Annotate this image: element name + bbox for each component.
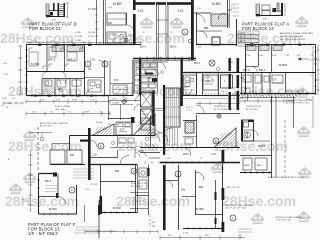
svg-text:M.BR.: M.BR. [212, 2, 222, 6]
svg-text:302: 302 [205, 235, 209, 237]
svg-text:BATH: BATH [244, 87, 251, 90]
svg-text:3.05: 3.05 [259, 55, 263, 57]
svg-text:3.05 M 2.1: 3.05 M 2.1 [240, 41, 250, 43]
svg-text:2.40: 2.40 [246, 55, 250, 57]
svg-text:E: E [100, 144, 102, 148]
svg-text:3.05: 3.05 [3, 63, 7, 65]
svg-text:ST.: ST. [273, 79, 277, 82]
svg-text:3.0: 3.0 [112, 41, 115, 43]
svg-text:BR.1: BR.1 [257, 165, 263, 167]
svg-text:1.9M: 1.9M [306, 99, 311, 101]
svg-text:37.0M: 37.0M [88, 8, 96, 11]
svg-text:302: 302 [168, 235, 172, 237]
svg-text:M.BR.: M.BR. [113, 206, 122, 210]
svg-text:2.1: 2.1 [143, 32, 146, 34]
svg-text:3.05 M 2.1: 3.05 M 2.1 [240, 37, 250, 39]
svg-text:3.05: 3.05 [166, 158, 170, 160]
svg-text:ST.: ST. [206, 80, 210, 83]
svg-text:5.0M: 5.0M [183, 233, 188, 235]
svg-text:BATH: BATH [244, 164, 250, 167]
svg-text:AT 2/F LEVEL ONLY: AT 2/F LEVEL ONLY [214, 108, 235, 111]
svg-text:BR.1: BR.1 [259, 68, 266, 72]
svg-text:2.7: 2.7 [124, 41, 127, 43]
svg-text:KIT.: KIT. [114, 79, 119, 82]
svg-text:15: 15 [68, 111, 71, 113]
svg-text:505: 505 [263, 19, 268, 21]
svg-text:FOR BLOCK 13: FOR BLOCK 13 [242, 26, 274, 31]
svg-text:5.0M: 5.0M [75, 32, 81, 34]
svg-text:3.15: 3.15 [56, 100, 60, 102]
svg-text:BR.3: BR.3 [48, 58, 56, 62]
svg-text:2.85: 2.85 [285, 55, 289, 57]
svg-text:3.05: 3.05 [197, 8, 201, 10]
svg-text:1.0M: 1.0M [6, 103, 11, 105]
svg-text:BR.: BR. [204, 26, 209, 30]
svg-text:3.05: 3.05 [90, 100, 94, 102]
svg-text:BR.: BR. [199, 185, 204, 189]
svg-text:L.TO: L.TO [196, 47, 201, 49]
svg-text:M: M [2, 105, 4, 107]
svg-text:2.1: 2.1 [88, 41, 91, 43]
svg-text:3.0: 3.0 [310, 75, 313, 77]
svg-text:W: W [6, 107, 8, 109]
svg-text:28Hse.com: 28Hse.com [0, 30, 74, 46]
svg-text:U.P.: U.P. [108, 124, 113, 126]
svg-text:3.05: 3.05 [33, 41, 37, 43]
svg-text:AT 2/F 4/F 12/F ONLY: AT 2/F 4/F 12/F ONLY [226, 207, 247, 210]
svg-text:DIN.: DIN. [140, 45, 147, 49]
svg-text:KIT.: KIT. [185, 86, 190, 89]
svg-text:1.15: 1.15 [250, 37, 254, 39]
svg-text:28.0M: 28.0M [96, 122, 102, 124]
svg-text:LIV 9/F: LIV 9/F [90, 184, 98, 186]
svg-text:M.BR.: M.BR. [113, 2, 123, 6]
svg-text:28Hse.com: 28Hse.com [8, 83, 82, 99]
svg-text:28Hse.com: 28Hse.com [5, 193, 79, 209]
svg-text:F: F [232, 216, 234, 220]
svg-text:F: F [71, 188, 73, 192]
svg-text:KIT.: KIT. [120, 128, 125, 132]
svg-text:37.0M: 37.0M [75, 36, 82, 38]
svg-text:30: 30 [100, 111, 103, 113]
svg-text:E: E [177, 173, 179, 176]
svg-text:302: 302 [238, 235, 242, 237]
svg-text:M.BR.: M.BR. [49, 207, 58, 211]
svg-text:FOR BLOCK 13: FOR BLOCK 13 [29, 26, 61, 31]
svg-text:CANOPY ABOVE: CANOPY ABOVE [286, 90, 305, 93]
svg-text:DIN.: DIN. [138, 149, 145, 153]
svg-text:DIN.: DIN. [170, 45, 177, 49]
svg-text:LIV.: LIV. [211, 152, 217, 156]
svg-text:2.7: 2.7 [200, 158, 203, 160]
svg-text:5.0M: 5.0M [150, 222, 155, 224]
svg-text:2.60: 2.60 [296, 55, 300, 57]
svg-text:P.D.: P.D. [221, 91, 225, 93]
svg-text:8.0M: 8.0M [84, 111, 89, 113]
svg-text:2.1: 2.1 [170, 32, 173, 34]
svg-text:40 FTH: 40 FTH [310, 60, 318, 62]
svg-text:5.0M: 5.0M [75, 40, 81, 42]
svg-text:LIFT: LIFT [112, 99, 117, 101]
svg-text:3.05: 3.05 [32, 111, 36, 113]
svg-text:3.05 M 2.1: 3.05 M 2.1 [240, 33, 250, 35]
svg-text:LOBBY: LOBBY [112, 103, 120, 105]
svg-text:3.0: 3.0 [12, 98, 15, 100]
svg-text:28Hse.com: 28Hse.com [8, 138, 82, 154]
svg-text:ARCHITECTURAL FEATURE: ARCHITECTURAL FEATURE [280, 32, 313, 35]
svg-text:2.1: 2.1 [310, 55, 313, 57]
svg-text:U.P.: U.P. [150, 150, 154, 152]
svg-text:LOBBY: LOBBY [141, 114, 149, 116]
svg-text:3.05 3.0 8.0M 30 15 8.0M: 3.05 3.0 8.0M 30 15 8.0M 3.05 [85, 231, 117, 233]
svg-text:(INC. BAL.): (INC. BAL.) [55, 108, 67, 111]
svg-text:3.0: 3.0 [51, 41, 54, 43]
svg-text:3.0: 3.0 [50, 111, 53, 113]
svg-text:8.0M: 8.0M [72, 100, 77, 102]
svg-text:AT 2/F ONLY: AT 2/F ONLY [40, 125, 53, 128]
svg-text:M.BR.: M.BR. [258, 144, 266, 148]
svg-text:3.05: 3.05 [69, 41, 73, 43]
svg-text:DN.: DN. [181, 188, 186, 192]
svg-text:3.05 2.1: 3.05 2.1 [186, 107, 194, 109]
svg-text:FLAT ROOF 3A: FLAT ROOF 3A [214, 105, 231, 108]
svg-text:28Hse.com: 28Hse.com [118, 138, 192, 154]
svg-text:3.05: 3.05 [40, 100, 44, 102]
svg-text:BR.: BR. [115, 169, 120, 173]
svg-text:DIN.: DIN. [183, 152, 190, 156]
svg-text:FLAT ROOF 3D: FLAT ROOF 3D [246, 105, 262, 108]
svg-text:3.05: 3.05 [85, 189, 89, 191]
svg-text:2 4/F 12/F ONLY: 2 4/F 12/F ONLY [276, 220, 292, 222]
svg-text:5.2M: 5.2M [88, 36, 94, 38]
svg-text:3.05 M 2.1: 3.05 M 2.1 [240, 45, 250, 47]
svg-text:LINE O.H. 2/F: LINE O.H. 2/F [226, 187, 241, 189]
svg-text:B: B [215, 139, 217, 143]
svg-text:BR.: BR. [70, 153, 75, 157]
svg-text:BR.2: BR.2 [243, 68, 250, 72]
svg-text:1/F - 5/F ONLY: 1/F - 5/F ONLY [28, 231, 58, 236]
svg-text:E: E [133, 170, 135, 173]
svg-text:3.2M: 3.2M [150, 226, 155, 228]
svg-text:BR.1: BR.1 [45, 179, 52, 183]
svg-text:LIFT: LIFT [141, 111, 146, 113]
svg-text:3.05: 3.05 [272, 55, 276, 57]
svg-text:ST.: ST. [88, 68, 92, 71]
svg-text:LIV.: LIV. [178, 9, 184, 13]
svg-text:M.BR.: M.BR. [279, 63, 288, 67]
svg-text:10.2M: 10.2M [88, 32, 95, 34]
svg-text:FLAT D AREA: FLAT D AREA [55, 105, 70, 108]
svg-text:M.BR.: M.BR. [31, 62, 40, 66]
svg-text:A: A [184, 30, 186, 34]
svg-text:LIV.: LIV. [90, 58, 96, 62]
svg-text:54.0: 54.0 [22, 199, 27, 201]
svg-text:D: D [87, 63, 89, 66]
svg-text:5.05: 5.05 [108, 7, 112, 9]
svg-text:AT 2/F ONLY: AT 2/F ONLY [131, 185, 144, 188]
svg-text:BR.: BR. [108, 21, 113, 25]
svg-text:AT 2/F-12/F LEVEL ONLY: AT 2/F-12/F LEVEL ONLY [286, 102, 311, 105]
svg-text:2/F-12/F LEVEL ONLY: 2/F-12/F LEVEL ONLY [280, 39, 306, 41]
svg-text:AT 2/F 4/F ONLY AT: AT 2/F 4/F ONLY AT [280, 35, 304, 38]
svg-text:LIV.: LIV. [138, 9, 144, 13]
svg-text:2.15: 2.15 [250, 33, 254, 35]
svg-text:AT 2/F ONLY: AT 2/F ONLY [246, 108, 259, 111]
svg-text:FLAT ROOF 3B: FLAT ROOF 3B [131, 182, 147, 185]
svg-text:T.B: T.B [214, 42, 218, 44]
svg-text:M.BR.: M.BR. [196, 207, 205, 211]
svg-text:2.1M: 2.1M [3, 74, 8, 76]
svg-text:LIV.: LIV. [92, 153, 98, 157]
svg-text:2.7 FT: 2.7 FT [186, 110, 192, 112]
svg-text:1.05: 1.05 [2, 98, 6, 100]
svg-text:DIN.: DIN. [194, 61, 201, 65]
svg-text:ARCHITECTURAL FEATURE 2 4/F 12: ARCHITECTURAL FEATURE 2 4/F 12/F [268, 176, 305, 179]
